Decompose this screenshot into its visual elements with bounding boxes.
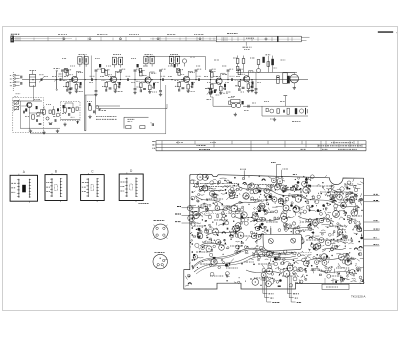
transistor pinout circle 2 bbox=[153, 254, 167, 268]
detector diode circle bbox=[96, 106, 99, 109]
coil unit C top pin bbox=[87, 173, 89, 175]
component body TS3 bbox=[153, 83, 155, 86]
left edge pad column bbox=[192, 191, 194, 193]
coil unit C core bbox=[91, 185, 94, 191]
neutralizing capacitor TS3 bbox=[143, 88, 146, 90]
alignment table frame lines bbox=[156, 140, 366, 142]
coil unit B pin labels bbox=[46, 182, 51, 184]
antenna link bbox=[284, 96, 286, 107]
ground TS4 emitter bbox=[187, 89, 189, 91]
volume pot R2 bbox=[56, 72, 58, 90]
row letters bbox=[152, 140, 155, 142]
driver components bbox=[257, 60, 260, 65]
neutralizing capacitor TS6 bbox=[242, 86, 245, 88]
tuning capacitor posts bbox=[270, 228, 272, 234]
coil unit A left winding bbox=[18, 179, 20, 198]
output transformer T2 bbox=[283, 73, 287, 84]
coil unit C outline bbox=[81, 175, 105, 201]
label above drum bbox=[227, 33, 238, 35]
component body TS6 bbox=[252, 81, 254, 84]
base resistor R26 bbox=[211, 84, 214, 89]
filter capacitor TS1 bbox=[66, 89, 68, 92]
pulleys and clamps along cord bbox=[15, 37, 17, 41]
table entries bbox=[197, 145, 206, 147]
oscillator coil symbol bbox=[182, 59, 186, 63]
battery label bbox=[292, 121, 300, 123]
transistor TS3 bbox=[145, 77, 151, 83]
filter capacitor TS3 bbox=[139, 89, 141, 92]
left edge labels TA 12V LDR bbox=[182, 207, 202, 209]
emitter bypass C20 bbox=[152, 86, 154, 89]
ground osc A bbox=[30, 129, 32, 131]
base resistor R14 bbox=[105, 82, 108, 87]
output stage rails bbox=[262, 105, 308, 107]
component body TS5 bbox=[224, 84, 226, 87]
detector extra parts bbox=[89, 103, 91, 106]
stage value labels bbox=[65, 69, 71, 71]
coil unit A right winding bbox=[28, 179, 30, 198]
tone switch sub-circuit frame bbox=[123, 117, 125, 128]
bias resistor R21 bbox=[178, 71, 181, 76]
collector wire TS4 bbox=[187, 71, 189, 76]
bias resistor R17 bbox=[140, 71, 143, 76]
coil unit B top pin bbox=[51, 173, 53, 175]
svg-text:TK3 520 A: TK3 520 A bbox=[351, 294, 366, 298]
collector wire TS6 bbox=[247, 71, 249, 76]
bottom leader group 2 bbox=[286, 277, 288, 294]
gang link dashed bbox=[15, 104, 17, 106]
rail riser bbox=[165, 85, 167, 134]
ground mixer bbox=[64, 123, 66, 125]
emitter bypass C32 bbox=[251, 85, 253, 88]
ground output bbox=[274, 118, 276, 120]
transistor pinout circle 1 bbox=[153, 224, 168, 239]
bias resistor R29 bbox=[238, 70, 241, 75]
dial cord lower run bbox=[14, 40, 216, 42]
coil unit B left winding bbox=[51, 178, 53, 197]
bias resistor R25 bbox=[211, 73, 214, 78]
antenna coil L1 bbox=[29, 74, 35, 86]
can feed wires bbox=[79, 64, 81, 67]
cord labels bbox=[58, 34, 67, 36]
drum internal marks bbox=[221, 37, 223, 41]
loudspeaker LS bbox=[290, 74, 299, 83]
AF wire bbox=[243, 105, 262, 107]
coil unit C right winding bbox=[96, 178, 98, 197]
base resistor R18 bbox=[140, 83, 143, 88]
wire 2.8k bbox=[282, 170, 284, 179]
tone cap symbol bbox=[151, 123, 153, 126]
antenna trimmer C4 bbox=[40, 78, 42, 81]
capacitor C1 bbox=[20, 76, 22, 79]
risers above bus bbox=[62, 72, 64, 80]
PCB dark component blobs bbox=[213, 257, 216, 259]
emitter resistor R11 bbox=[75, 82, 77, 84]
table tick marks bbox=[161, 141, 163, 151]
base resistor R22 bbox=[178, 82, 181, 87]
coil unit A pin labels bbox=[11, 182, 16, 184]
coil unit B outline bbox=[45, 175, 67, 201]
coil unit D core bbox=[130, 184, 133, 190]
wire at notch bbox=[243, 170, 245, 179]
feedback capacitor C30 bbox=[270, 109, 274, 113]
coil unit C pin labels bbox=[82, 182, 87, 184]
misc labels top bbox=[62, 57, 67, 59]
series components above bus bbox=[65, 68, 68, 72]
tone switch label bbox=[128, 118, 135, 120]
emitter resistor R27 bbox=[220, 84, 222, 86]
oscillator resistor R5 bbox=[32, 115, 35, 119]
note line 1 bbox=[96, 115, 116, 117]
ground TS3 emitter bbox=[149, 90, 151, 92]
component body TS4 bbox=[191, 82, 193, 85]
junction dots on bus bbox=[32, 79, 33, 80]
IF transformer S4 bbox=[169, 56, 173, 64]
osc bypass C10 bbox=[49, 123, 52, 125]
bracket double line bbox=[84, 95, 86, 131]
battery terminal bars bbox=[305, 108, 307, 115]
filter capacitor TS6 bbox=[238, 88, 240, 91]
padder capacitor bbox=[22, 111, 24, 114]
stage value labels bbox=[237, 68, 243, 70]
stage value labels bbox=[104, 69, 110, 71]
base resistor R10 bbox=[66, 82, 69, 87]
tone switch contact 2 bbox=[140, 126, 145, 129]
bus-side annotations bbox=[44, 75, 48, 77]
ground detector bbox=[89, 115, 91, 117]
oscillator wire top bbox=[13, 100, 43, 102]
output electrolytic C61 bbox=[277, 76, 280, 84]
PCB dashed alignment lines bbox=[193, 213, 240, 215]
coil unit D top pin bbox=[126, 172, 128, 174]
component body TS1 bbox=[80, 82, 82, 85]
coil unit D outline bbox=[119, 174, 143, 201]
bias resistor R13 bbox=[105, 71, 108, 76]
label 1013 above anchor bbox=[11, 33, 19, 35]
emitter bypass C16 bbox=[118, 85, 120, 88]
AGC branch bbox=[85, 94, 96, 96]
ground TS6 emitter bbox=[247, 89, 249, 91]
filter capacitor TS5 bbox=[210, 91, 212, 94]
ground TS5 emitter bbox=[220, 91, 222, 93]
coil unit D right winding bbox=[135, 178, 137, 198]
detector wires bbox=[95, 95, 97, 115]
neutralizing capacitor TS4 bbox=[182, 87, 185, 89]
AF volume double pot bbox=[231, 103, 235, 107]
neutralizing capacitor TS1 bbox=[70, 87, 73, 89]
dark blobs above bus bbox=[99, 64, 101, 67]
oscillator extra parts bbox=[25, 108, 27, 111]
IF transformer S3 bbox=[144, 56, 148, 64]
feedback resistor R30 bbox=[277, 109, 280, 113]
lower return line bbox=[100, 108, 167, 110]
emitter resistor R23 bbox=[187, 82, 189, 84]
pointer leader below drum bbox=[245, 42, 247, 46]
output labels bbox=[250, 57, 255, 59]
speaker wires bbox=[287, 71, 294, 73]
capacitor C2 bbox=[20, 82, 22, 85]
stage value labels bbox=[210, 71, 216, 73]
main signal bus bbox=[56, 79, 308, 81]
tuning capacitor screw right bbox=[291, 238, 296, 243]
rail drop caps bbox=[255, 72, 257, 88]
mixer extra parts bbox=[63, 105, 65, 108]
connector area labels bbox=[16, 93, 21, 95]
oscillator resistor R7 bbox=[52, 110, 55, 114]
note line 2 bbox=[96, 118, 117, 120]
top rail wire bbox=[146, 56, 206, 58]
neutralizing capacitor TS2 bbox=[109, 87, 112, 89]
PCB trace curves bbox=[192, 248, 292, 268]
output extra parts bbox=[266, 108, 268, 111]
supply rail bbox=[236, 71, 297, 73]
svg-text:B: B bbox=[55, 169, 57, 173]
right column extra texture bbox=[350, 201, 352, 203]
mixer resistor R8 bbox=[64, 108, 67, 112]
printed circuit board outline bbox=[184, 174, 364, 289]
PCB paired cord traces bbox=[192, 250, 292, 270]
component body TS2 bbox=[119, 82, 121, 85]
dial-cord diagram: left anchor block bbox=[10, 36, 14, 43]
stage value labels bbox=[139, 69, 145, 71]
output electrolytic C62 bbox=[287, 76, 290, 84]
coil unit B right winding bbox=[59, 178, 61, 197]
switch circle bbox=[300, 109, 304, 113]
trimmer C8 bbox=[46, 117, 49, 120]
stage value labels bbox=[177, 69, 183, 71]
neutralizing capacitor TS5 bbox=[214, 89, 217, 91]
coil unit B core bbox=[55, 185, 58, 191]
collector wire TS2 bbox=[114, 71, 116, 76]
tuning capacitor screw left bbox=[268, 239, 273, 244]
filter electrolytic C60 bbox=[271, 59, 274, 65]
dropper chain R40 bbox=[236, 59, 239, 64]
emitter bypass C28 bbox=[223, 87, 225, 90]
mixer dashed enclosure bbox=[61, 102, 81, 121]
detector capacitor C13 bbox=[93, 110, 95, 113]
coil unit A outline bbox=[10, 175, 37, 201]
osc bypass C9 bbox=[39, 123, 42, 125]
transistor TS4 bbox=[183, 76, 189, 82]
second dropper chain bbox=[242, 59, 245, 64]
collector wire TS3 bbox=[149, 72, 151, 77]
right edge leader wires bbox=[364, 195, 380, 197]
filter capacitor TS4 bbox=[178, 89, 180, 92]
base resistor R30 bbox=[238, 82, 241, 87]
PCB component pads and parts bbox=[327, 211, 331, 213]
label W near top edge bbox=[293, 174, 297, 176]
wire up to dial lamp bbox=[276, 164, 278, 186]
transistor TS2 bbox=[110, 76, 116, 82]
IF transformer S2 bbox=[112, 57, 116, 65]
transistor TS5 bbox=[216, 78, 222, 84]
collector wire TS5 bbox=[220, 73, 222, 78]
coupling capacitors on bus bbox=[59, 78, 61, 81]
tuning gang C3b bbox=[14, 106, 19, 109]
lower common rail bbox=[30, 133, 166, 135]
oscillator transistor TS7 bbox=[27, 102, 32, 107]
ground AF pot bbox=[234, 113, 236, 115]
driver vertical bbox=[267, 56, 269, 72]
IF transformer S1 bbox=[78, 57, 82, 65]
mixer capacitor C11 bbox=[68, 113, 70, 116]
dial cord upper run bbox=[14, 36, 216, 38]
ground TS1 emitter bbox=[75, 89, 77, 91]
second coil circle bbox=[56, 113, 60, 117]
volume potentiometer R25 bbox=[209, 89, 212, 94]
oscillator section dashed enclosure bbox=[13, 98, 44, 133]
mixer bottom wire with arrow bbox=[61, 119, 81, 121]
battery electrolytic Ca bbox=[287, 108, 289, 114]
bottom leader group 1 bbox=[262, 277, 264, 294]
driver elco bbox=[262, 57, 264, 63]
cord tail right of drum bbox=[301, 36, 309, 38]
sheet number top right bbox=[378, 31, 393, 33]
ground TS2 emitter bbox=[114, 89, 116, 91]
long feedback line bbox=[84, 55, 86, 95]
PCB silkscreen text rows bbox=[193, 183, 237, 185]
oscillator resistor R6 bbox=[43, 110, 46, 114]
dial cord middle run segments bbox=[14, 38, 72, 40]
transistor pinout label 1 bbox=[154, 219, 165, 221]
tone switch contact 1 bbox=[126, 126, 131, 129]
wire input to coil bbox=[22, 79, 29, 81]
bottom right label box bbox=[322, 284, 349, 289]
oscillator bottom wire bbox=[20, 127, 60, 129]
coil unit C left winding bbox=[87, 178, 89, 197]
wire to AF stage bbox=[212, 97, 214, 106]
AGC line bbox=[90, 56, 92, 80]
tuning gang C3a bbox=[14, 101, 19, 104]
cluster under notch bbox=[328, 188, 332, 192]
battery electrolytic Cb bbox=[295, 108, 297, 114]
emitter resistor R31 bbox=[247, 81, 249, 83]
decoupling drops from bus bbox=[69, 80, 71, 88]
input connector K1 bbox=[12, 72, 14, 92]
bias resistor R9 bbox=[66, 71, 69, 76]
transistor TS6 bbox=[244, 76, 250, 82]
emitter resistor R15 bbox=[114, 82, 116, 84]
coil unit D pin labels bbox=[120, 181, 124, 183]
transistor pinout label 2 bbox=[155, 252, 165, 254]
tuning capacitor clear area bbox=[263, 234, 302, 251]
coil unit A core bbox=[22, 185, 26, 193]
emitter resistor R19 bbox=[149, 83, 151, 85]
transistor TS1 bbox=[72, 76, 78, 82]
coil row part number bbox=[139, 203, 149, 205]
filter capacitor TS2 bbox=[105, 89, 107, 92]
wire L1 to bus bbox=[36, 79, 56, 81]
ground osc C bbox=[57, 129, 59, 131]
ground osc B bbox=[43, 131, 45, 133]
emitter bypass C12 bbox=[79, 85, 81, 88]
mixer resistor R9 bbox=[72, 108, 75, 112]
coil unit D left winding bbox=[126, 178, 128, 198]
emitter bypass C24 bbox=[191, 85, 193, 88]
PCB medium mounting circles bbox=[193, 212, 200, 219]
coil unit A top pin bbox=[18, 174, 20, 176]
oscillator coil core bbox=[37, 112, 41, 116]
detector cluster resistor R10 bbox=[89, 106, 92, 110]
collector wire TS1 bbox=[75, 71, 77, 76]
AF extra parts bbox=[229, 101, 231, 104]
note (A) bbox=[102, 110, 107, 112]
tuning drum box bbox=[216, 36, 301, 42]
